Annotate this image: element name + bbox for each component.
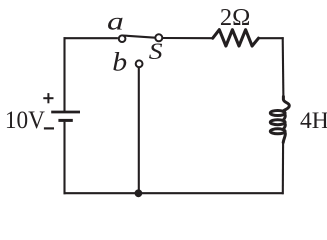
inductor L1 entry hook — [283, 97, 290, 112]
battery plus sign — [43, 93, 53, 103]
inductor L1 ring 1 — [270, 111, 285, 116]
wire from contact b down — [138, 68, 140, 194]
wire top-right horizontal — [259, 37, 284, 39]
svg-text:S: S — [149, 39, 163, 64]
inductor L1 link 2-3 — [283, 123, 285, 129]
junction node dot — [135, 189, 143, 197]
switch blade S — [123, 36, 155, 38]
wire switch to resistor — [163, 37, 214, 39]
wire left rail lower — [63, 122, 65, 195]
wire left rail upper — [63, 37, 65, 111]
battery minus sign — [44, 127, 54, 129]
svg-text:10V: 10V — [5, 106, 46, 134]
wire bottom — [64, 192, 284, 194]
battery V1 top plate — [51, 111, 80, 114]
inductor L1 ring 3 — [270, 129, 285, 134]
inductor L1 exit tail — [283, 132, 285, 142]
inductor L1 link 1-2 — [283, 114, 285, 120]
svg-text:4H: 4H — [300, 108, 327, 134]
svg-text:a: a — [107, 9, 124, 36]
battery V1 bottom plate — [58, 119, 72, 122]
wire right rail upper — [282, 37, 285, 97]
wire top-left horizontal — [64, 37, 118, 39]
svg-text:2Ω: 2Ω — [220, 4, 250, 31]
switch contact b circle — [136, 60, 143, 67]
switch pivot S circle — [155, 34, 162, 41]
wire right rail lower — [282, 142, 284, 195]
svg-text:b: b — [112, 48, 127, 77]
switch contact a circle — [119, 35, 126, 42]
resistor R1 zigzag — [213, 30, 259, 46]
inductor L1 ring 2 — [270, 120, 285, 125]
